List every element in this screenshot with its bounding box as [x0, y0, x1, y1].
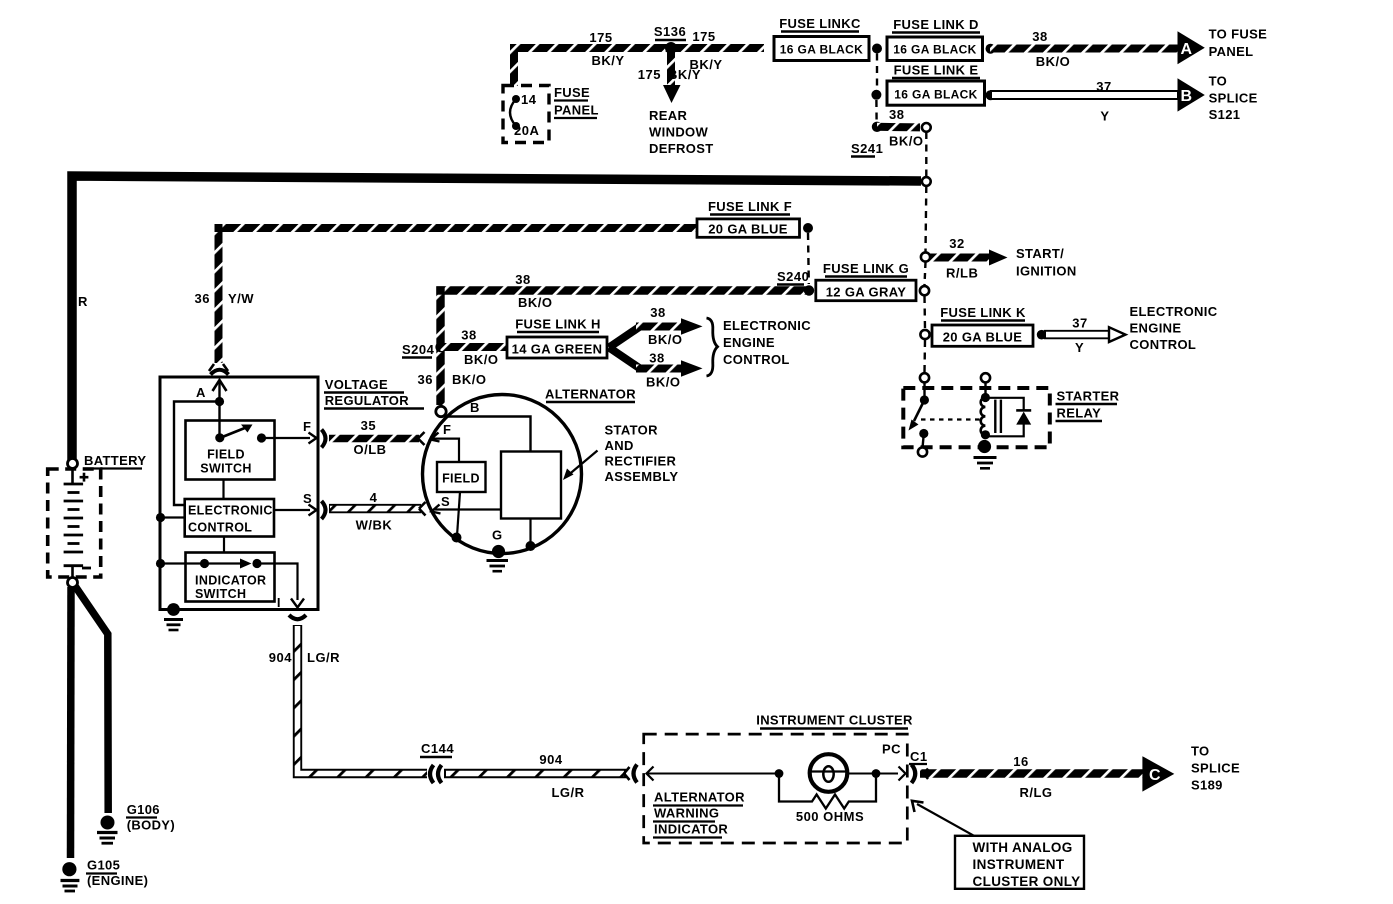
- alternator S terminal arrow: [432, 505, 441, 514]
- svg-text:S240: S240: [777, 269, 809, 284]
- electronic control box: [185, 499, 274, 537]
- svg-text:BK/O: BK/O: [452, 372, 487, 387]
- svg-text:14 GA GREEN: 14 GA GREEN: [512, 342, 603, 357]
- regulator A terminal arrow: [218, 381, 220, 402]
- diode loop: [985, 398, 1023, 437]
- svg-text:S121: S121: [1209, 107, 1241, 122]
- ground wire to G105: [67, 587, 75, 858]
- battery positive terminal node: [68, 459, 78, 469]
- starter relay terminal nodes: [920, 373, 929, 382]
- svg-text:WITH ANALOG: WITH ANALOG: [973, 840, 1073, 855]
- svg-text:ELECTRONIC: ELECTRONIC: [188, 504, 273, 518]
- ground G105 (ENGINE): [62, 862, 76, 876]
- alternator B terminal node: [436, 406, 446, 416]
- svg-text:BK/O: BK/O: [889, 134, 924, 149]
- svg-text:37: 37: [1096, 79, 1111, 94]
- svg-text:38: 38: [889, 107, 904, 122]
- pointer arrow to cluster: [917, 804, 974, 836]
- svg-text:BK/O: BK/O: [518, 295, 553, 310]
- svg-text:O/LB: O/LB: [353, 442, 386, 457]
- svg-text:175: 175: [589, 30, 612, 45]
- alternator ground: [492, 545, 505, 558]
- svg-text:38: 38: [461, 328, 476, 343]
- svg-text:FUSE LINK G: FUSE LINK G: [823, 261, 909, 276]
- node after fuse link D: [986, 44, 996, 54]
- svg-text:12 GA GRAY: 12 GA GRAY: [826, 285, 907, 300]
- connector at F terminal: [322, 430, 326, 448]
- svg-text:G106: G106: [127, 802, 160, 817]
- svg-text:REGULATOR: REGULATOR: [325, 393, 410, 408]
- diode: [1016, 409, 1031, 412]
- wire 32 R/LB: [930, 254, 990, 262]
- field switch box: [186, 421, 275, 480]
- wire electronic control to S terminal: [274, 509, 310, 511]
- svg-text:PANEL: PANEL: [554, 103, 599, 118]
- svg-text:LG/R: LG/R: [551, 785, 584, 800]
- svg-text:BK/O: BK/O: [1036, 54, 1071, 69]
- svg-text:175: 175: [692, 29, 715, 44]
- svg-text:INDICATOR: INDICATOR: [195, 574, 266, 588]
- svg-text:20A: 20A: [514, 123, 539, 138]
- svg-text:904: 904: [539, 752, 562, 767]
- pointer arrow to rectifier: [566, 451, 598, 478]
- svg-text:G: G: [492, 528, 503, 543]
- battery minus sign: [82, 567, 91, 570]
- svg-text:R/LG: R/LG: [1019, 785, 1052, 800]
- fuse link E box 16 GA BLACK: [887, 81, 985, 105]
- svg-text:BK/O: BK/O: [464, 352, 499, 367]
- svg-text:TO: TO: [1209, 74, 1228, 89]
- wire dashed S241 to heavy line: [925, 132, 927, 176]
- svg-text:BK/O: BK/O: [648, 332, 683, 347]
- node before fuse link E: [871, 90, 881, 100]
- svg-text:ASSEMBLY: ASSEMBLY: [605, 469, 679, 484]
- svg-text:RELAY: RELAY: [1057, 406, 1102, 421]
- svg-text:WINDOW: WINDOW: [649, 125, 709, 140]
- warning indicator lamp: [810, 754, 848, 792]
- battery negative terminal node: [68, 578, 78, 588]
- svg-text:C144: C144: [421, 741, 454, 756]
- svg-text:I: I: [277, 595, 281, 610]
- ground G106 (BODY): [101, 816, 115, 830]
- svg-text:SPLICE: SPLICE: [1209, 91, 1258, 106]
- svg-text:INDICATOR: INDICATOR: [654, 822, 728, 837]
- svg-text:S136: S136: [654, 24, 686, 39]
- svg-text:ELECTRONIC: ELECTRONIC: [1130, 304, 1218, 319]
- svg-text:ENGINE: ENGINE: [1130, 321, 1182, 336]
- node fuse link K: [920, 330, 929, 339]
- svg-text:ALTERNATOR: ALTERNATOR: [545, 387, 636, 402]
- svg-text:20 GA BLUE: 20 GA BLUE: [943, 330, 1023, 345]
- connector at cluster left: [634, 765, 638, 783]
- arrow into C1: [899, 767, 906, 781]
- svg-text:CONTROL: CONTROL: [723, 352, 790, 367]
- fuse link F box 20 GA BLUE: [697, 219, 800, 237]
- node after fuse link G: [920, 286, 929, 295]
- dashed splice chain below fuse link C: [876, 54, 878, 91]
- wire 38 BK/O to arrow A: [990, 45, 1178, 53]
- wire field switch to F terminal: [262, 437, 311, 439]
- fuse link C box 16 GA BLACK: [774, 37, 869, 61]
- dashed heavy line to start/ignition node: [924, 186, 927, 252]
- svg-text:FUSE LINK D: FUSE LINK D: [893, 17, 978, 32]
- svg-text:16 GA BLACK: 16 GA BLACK: [893, 43, 976, 57]
- battery plus sign: [80, 476, 89, 479]
- wire rectifier to ground: [529, 519, 531, 545]
- svg-text:VOLTAGE: VOLTAGE: [325, 377, 388, 392]
- cluster internal wire with arrow left: [647, 767, 654, 781]
- svg-text:S: S: [303, 491, 312, 506]
- dashed start node to fuse link G node: [925, 262, 926, 285]
- wire B to rectifier: [445, 417, 531, 452]
- svg-text:RECTIFIER: RECTIFIER: [605, 454, 677, 469]
- svg-text:SWITCH: SWITCH: [200, 462, 251, 476]
- instrument cluster dashed box: [644, 734, 908, 843]
- connector at S terminal: [322, 501, 326, 519]
- wire 38 BK/O upper branch: [609, 327, 640, 348]
- svg-text:LG/R: LG/R: [307, 650, 340, 665]
- svg-text:G105: G105: [87, 858, 120, 873]
- svg-text:C1: C1: [910, 749, 928, 764]
- hollow arrow: [1109, 327, 1126, 342]
- svg-text:CLUSTER ONLY: CLUSTER ONLY: [973, 874, 1081, 889]
- node between fuse link C and D: [872, 44, 882, 54]
- indicator switch box: [186, 553, 275, 602]
- svg-text:16 GA BLACK: 16 GA BLACK: [780, 43, 863, 57]
- svg-text:FIELD: FIELD: [207, 448, 245, 462]
- wire A to electronic control: [174, 402, 220, 506]
- wire 16 R/LG C1 to arrow C: [920, 769, 1143, 778]
- battery dashed box: [48, 469, 101, 577]
- wire 4 W/BK: [329, 504, 421, 513]
- svg-text:PANEL: PANEL: [1209, 44, 1254, 59]
- arrow A to fuse panel: [1178, 31, 1205, 64]
- starter relay dashed box: [903, 388, 1050, 447]
- svg-text:A: A: [1181, 41, 1193, 58]
- svg-text:36: 36: [418, 372, 433, 387]
- svg-text:F: F: [443, 422, 451, 437]
- svg-text:R: R: [78, 294, 88, 309]
- svg-text:S204: S204: [402, 342, 435, 357]
- connector C144: [430, 765, 434, 783]
- svg-text:ENGINE: ENGINE: [723, 335, 775, 350]
- dashed fuse link F to S240: [807, 233, 810, 284]
- node after fuse link K: [1037, 330, 1047, 340]
- svg-text:SWITCH: SWITCH: [195, 587, 246, 601]
- svg-text:CONTROL: CONTROL: [188, 521, 252, 535]
- field switch contacts: [215, 433, 224, 442]
- svg-text:STATOR: STATOR: [605, 423, 659, 438]
- alternator F terminal arrow: [431, 433, 440, 442]
- arrow to rear window defrost: [663, 85, 681, 103]
- svg-text:37: 37: [1072, 316, 1087, 331]
- ground wire to G106: [75, 586, 108, 813]
- svg-text:W/BK: W/BK: [356, 518, 393, 533]
- curly brace: [707, 318, 718, 376]
- svg-text:FUSE LINK E: FUSE LINK E: [894, 63, 979, 78]
- svg-text:20 GA BLUE: 20 GA BLUE: [708, 222, 788, 237]
- node after fuse link E: [986, 90, 996, 100]
- svg-text:32: 32: [949, 236, 964, 251]
- fuse 14 20A symbol: [512, 95, 520, 103]
- svg-text:SPLICE: SPLICE: [1191, 761, 1240, 776]
- wire A to field switch: [218, 402, 220, 439]
- battery cell plates: [71, 468, 74, 483]
- svg-text:ALTERNATOR: ALTERNATOR: [654, 790, 745, 805]
- svg-text:BK/Y: BK/Y: [591, 53, 624, 68]
- field box: [437, 462, 486, 492]
- svg-text:38: 38: [650, 305, 665, 320]
- svg-text:START/: START/: [1016, 246, 1064, 261]
- wire 38 BK/O S204 to fuse link H: [441, 343, 509, 351]
- svg-text:38: 38: [515, 272, 530, 287]
- svg-text:Y/W: Y/W: [228, 291, 254, 306]
- stator and rectifier assembly box: [501, 452, 561, 519]
- svg-text:38: 38: [649, 351, 664, 366]
- svg-text:C: C: [1149, 767, 1161, 784]
- splice S204: [435, 342, 445, 352]
- wire indicator switch to I terminal: [257, 564, 298, 601]
- coil core lines: [994, 400, 996, 433]
- svg-text:DEFROST: DEFROST: [649, 141, 714, 156]
- fuse link H box 14 GA GREEN: [507, 337, 607, 358]
- wire 175 BK/Y fuse panel to S136 to fuse link C: [514, 48, 764, 86]
- svg-text:S: S: [441, 494, 450, 509]
- regulator ground: [167, 603, 180, 616]
- svg-text:FUSE LINK F: FUSE LINK F: [708, 199, 792, 214]
- splice S241: [872, 122, 882, 132]
- svg-text:S189: S189: [1191, 778, 1223, 793]
- node right of lamp: [872, 769, 881, 778]
- wire 36 Y/W regulator A to fuse link F: [219, 228, 699, 363]
- starter relay ground: [978, 440, 991, 453]
- svg-text:38: 38: [1032, 29, 1047, 44]
- svg-text:S241: S241: [851, 141, 883, 156]
- svg-text:BK/O: BK/O: [646, 375, 681, 390]
- svg-text:4: 4: [370, 490, 378, 505]
- svg-text:16: 16: [1013, 754, 1028, 769]
- wire 38 BK/O short segment: [877, 123, 920, 132]
- connector at regulator A terminal: [211, 370, 229, 375]
- indicator switch contacts: [161, 562, 205, 564]
- arrow C to splice S189: [1142, 756, 1174, 791]
- svg-text:904: 904: [269, 650, 292, 665]
- svg-text:ELECTRONIC: ELECTRONIC: [723, 318, 811, 333]
- svg-text:R/LB: R/LB: [946, 266, 978, 281]
- starter relay switch: [923, 383, 925, 401]
- node left of lamp: [775, 769, 784, 778]
- svg-text:500 OHMS: 500 OHMS: [796, 809, 864, 824]
- fuse link K box 20 GA BLUE: [932, 325, 1033, 346]
- svg-text:36: 36: [195, 291, 210, 306]
- with analog instrument cluster only box: [955, 836, 1084, 889]
- wire field to ground: [457, 492, 460, 536]
- svg-text:AND: AND: [605, 438, 634, 453]
- svg-text:BATTERY: BATTERY: [84, 453, 146, 468]
- starter relay coil: [984, 383, 986, 398]
- arrow B to splice S121: [1178, 78, 1205, 111]
- wire 904 LG/R C144 to instrument cluster: [444, 769, 626, 778]
- svg-text:FUSE LINK K: FUSE LINK K: [940, 305, 1026, 320]
- svg-text:INSTRUMENT CLUSTER: INSTRUMENT CLUSTER: [756, 713, 913, 728]
- svg-text:FUSE: FUSE: [554, 85, 590, 100]
- wire 37 Y to electronic engine control: [1044, 330, 1110, 339]
- node on regulator left edge lower: [156, 559, 165, 568]
- svg-text:Y: Y: [1100, 109, 1109, 124]
- wire 38 BK/O lower branch: [609, 348, 640, 369]
- starter relay linkage dashed: [921, 418, 981, 420]
- svg-text:A: A: [196, 385, 206, 400]
- svg-text:F: F: [303, 419, 311, 434]
- fuse link G box 12 GA GRAY: [816, 280, 916, 301]
- heavy battery feed wire R: [72, 176, 921, 460]
- svg-text:BK/Y: BK/Y: [668, 67, 701, 82]
- node on regulator left edge: [156, 513, 165, 522]
- resistor 500 OHMS: [779, 774, 876, 809]
- svg-text:TO FUSE: TO FUSE: [1209, 27, 1268, 42]
- dashed fuse link K to starter relay: [923, 340, 926, 372]
- alternator circle: [423, 395, 582, 554]
- dashed fuse link G to fuse link K: [923, 296, 926, 329]
- wire 38/36 BK/O fuse link G to alternator B: [441, 291, 813, 406]
- svg-text:Y: Y: [1075, 340, 1084, 355]
- wire 37 Y to arrow B: [990, 90, 1178, 100]
- wire electronic control to indicator switch: [223, 537, 225, 553]
- voltage regulator box: [160, 377, 318, 610]
- fuse link D box 16 GA BLACK: [887, 37, 983, 61]
- node A: [215, 397, 224, 406]
- wire 904 LG/R regulator I to C144: [298, 625, 428, 774]
- svg-text:B: B: [470, 400, 480, 415]
- svg-text:TO: TO: [1191, 744, 1210, 759]
- fuse panel dashed box: [503, 86, 549, 143]
- wire field switch to electronic control: [222, 480, 224, 500]
- node on heavy line at S241: [922, 177, 931, 186]
- svg-text:16 GA BLACK: 16 GA BLACK: [894, 88, 977, 102]
- svg-text:FUSE LINK H: FUSE LINK H: [515, 317, 600, 332]
- node after fuse link F: [803, 223, 813, 233]
- battery bottom terminal: [64, 564, 84, 567]
- svg-text:WARNING: WARNING: [654, 806, 719, 821]
- svg-text:STARTER: STARTER: [1057, 389, 1120, 404]
- svg-text:B: B: [1181, 88, 1193, 105]
- svg-text:(BODY): (BODY): [127, 818, 175, 833]
- svg-text:(ENGINE): (ENGINE): [87, 873, 148, 888]
- wire 35 O/LB: [329, 435, 419, 443]
- svg-text:175: 175: [638, 67, 661, 82]
- svg-text:IGNITION: IGNITION: [1016, 264, 1077, 279]
- svg-text:REAR: REAR: [649, 108, 687, 123]
- svg-text:CONTROL: CONTROL: [1130, 337, 1197, 352]
- svg-text:INSTRUMENT: INSTRUMENT: [973, 857, 1065, 872]
- svg-text:FUSE LINKC: FUSE LINKC: [779, 16, 861, 31]
- svg-text:35: 35: [361, 418, 376, 433]
- svg-text:PC: PC: [882, 742, 901, 757]
- connector at I terminal: [289, 615, 306, 619]
- svg-text:14: 14: [521, 92, 537, 107]
- svg-text:FIELD: FIELD: [442, 472, 480, 486]
- node start/ignition: [921, 252, 930, 261]
- wire 175 BK/Y to rear window defrost: [667, 52, 675, 86]
